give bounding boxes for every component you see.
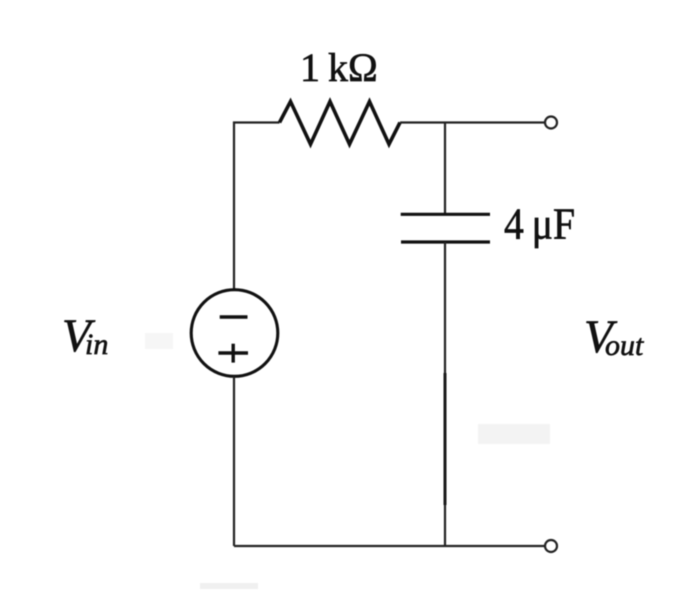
capacitor C1 bottom plate: [401, 240, 490, 243]
wire: darker thick portion of capacitor branch: [444, 373, 447, 505]
svg-text:4 μF: 4 μF: [504, 200, 575, 249]
faint ghost artifact left of source: [145, 333, 173, 349]
svg-text:in: in: [85, 328, 108, 361]
faint ghost artifact bottom-left: [200, 583, 258, 589]
resistor R1 zigzag: [280, 102, 401, 145]
wire: capacitor branch upper segment: [444, 123, 446, 216]
terminal top-right: [545, 117, 557, 129]
wire: left vertical lower (source to bottom): [233, 377, 235, 547]
wire: top horizontal from resistor to output terminal: [400, 121, 545, 123]
voltage source V1 circle: [191, 290, 278, 377]
wire: capacitor branch lower segment: [444, 242, 446, 546]
faint ghost artifact near capacitor branch: [478, 424, 550, 444]
terminal bottom-right: [545, 540, 557, 552]
wire: bottom horizontal: [234, 545, 545, 547]
plus sign of source: [218, 351, 248, 354]
capacitor C1 top plate: [401, 213, 490, 216]
svg-text:1 kΩ: 1 kΩ: [300, 45, 378, 90]
wire: top-left horizontal from left branch to resistor: [234, 121, 280, 124]
wire: left vertical upper (to source): [233, 123, 235, 291]
minus sign of source: [220, 315, 248, 318]
svg-text:out: out: [605, 329, 644, 362]
